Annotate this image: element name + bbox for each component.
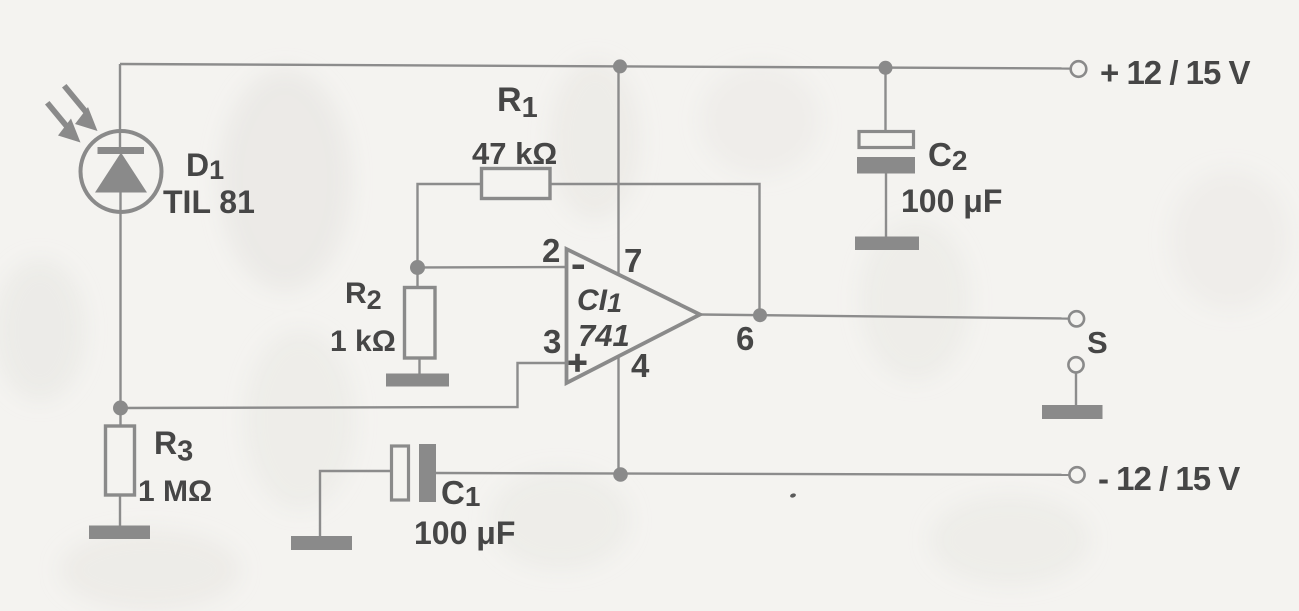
svg-text:741: 741 bbox=[578, 318, 630, 353]
svg-text:1 MΩ: 1 MΩ bbox=[138, 475, 212, 508]
light arrow 2 bbox=[45, 101, 81, 143]
wire: C2 top lead bbox=[884, 68, 886, 132]
wire: R1 right lead to output bbox=[550, 184, 760, 315]
svg-text:- 12 / 15 V: - 12 / 15 V bbox=[1098, 460, 1240, 497]
wire: R3 bottom lead bbox=[119, 495, 121, 526]
ground below R3 bbox=[89, 526, 150, 540]
capacitor C1 left plate bbox=[392, 446, 409, 500]
capacitor C2 top plate bbox=[859, 132, 914, 148]
terminal S bbox=[1069, 311, 1084, 326]
junction: output node 6 bbox=[753, 308, 767, 322]
photodiode D1 triangle bbox=[95, 153, 147, 193]
wire: supply column pins 7/4 bbox=[617, 66, 619, 473]
wire: R2 bottom lead bbox=[418, 358, 420, 374]
junction: bottom rail / pin 4 bbox=[613, 467, 628, 482]
svg-text:100 μF: 100 μF bbox=[414, 515, 515, 551]
terminal -12/15V bbox=[1069, 467, 1084, 482]
photodiode D1 cathode bar bbox=[98, 147, 145, 154]
terminal +12/15V bbox=[1071, 61, 1087, 77]
op-amp minus sign bbox=[573, 265, 585, 270]
svg-text:1 kΩ: 1 kΩ bbox=[330, 325, 396, 358]
capacitor C1 right plate bbox=[419, 444, 436, 502]
junction: top rail / C2 bbox=[879, 61, 893, 75]
svg-text:100 μF: 100 μF bbox=[901, 183, 1002, 219]
wire: node A to non-inverting input pin 3 bbox=[120, 363, 566, 408]
svg-text:+ 12 / 15 V: + 12 / 15 V bbox=[1100, 54, 1251, 91]
wire: C1 left lead to ground bbox=[320, 471, 392, 537]
wire: +V top rail bbox=[120, 64, 1070, 69]
capacitor C2 bottom plate bbox=[857, 157, 915, 174]
wire: R2 top lead bbox=[416, 268, 418, 288]
ground below R2 bbox=[386, 374, 449, 387]
ink speck bbox=[789, 493, 796, 499]
svg-text:S: S bbox=[1087, 325, 1108, 360]
junction: top rail / supply column bbox=[613, 59, 627, 73]
ground below C1 bbox=[291, 536, 352, 550]
wire: S ground lead bbox=[1075, 373, 1077, 407]
svg-text:TIL 81: TIL 81 bbox=[163, 184, 255, 220]
wire: -V bottom rail bbox=[436, 473, 1070, 475]
svg-text:CI1: CI1 bbox=[577, 284, 622, 318]
terminal S ground post bbox=[1068, 357, 1083, 372]
svg-text:3: 3 bbox=[543, 323, 561, 360]
wire: inverting input pin 2 bbox=[418, 266, 567, 269]
ground below C2 bbox=[855, 237, 919, 251]
junction: node A (D1 / R3 / pin 3) bbox=[113, 401, 128, 416]
svg-text:7: 7 bbox=[624, 242, 642, 279]
svg-text:2: 2 bbox=[542, 232, 560, 269]
op-amp U1 triangle bbox=[567, 249, 701, 383]
svg-text:6: 6 bbox=[736, 320, 754, 357]
wire: top rail drop to D1 bbox=[119, 64, 121, 148]
wire: R1 left lead bbox=[418, 184, 482, 268]
light arrow 1 bbox=[62, 84, 98, 131]
wire: D1 cathode column down to node A bbox=[119, 192, 121, 426]
junction: R1 left / pin 2 bbox=[410, 260, 425, 275]
resistor R3 bbox=[106, 426, 135, 495]
wire: op-amp output to S bbox=[700, 315, 1069, 319]
svg-text:4: 4 bbox=[631, 347, 650, 384]
svg-text:47 kΩ: 47 kΩ bbox=[472, 136, 557, 171]
ground below S bbox=[1042, 405, 1103, 419]
op-amp plus sign bbox=[569, 354, 587, 372]
resistor R1 bbox=[482, 169, 551, 199]
resistor R2 bbox=[405, 288, 436, 359]
wire: C2 bottom lead to ground bbox=[885, 174, 887, 238]
photodiode D1 circle bbox=[81, 131, 162, 212]
